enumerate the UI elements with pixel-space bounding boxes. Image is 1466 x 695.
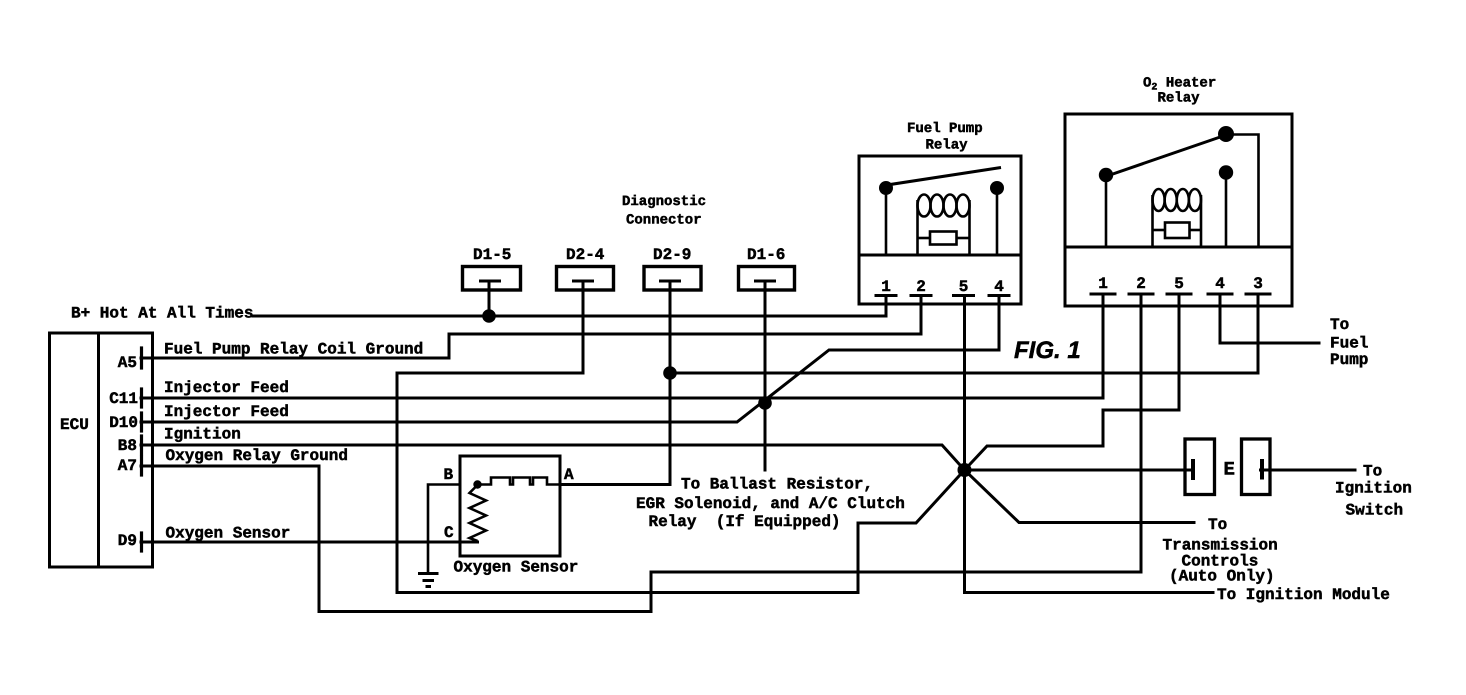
svg-text:To: To xyxy=(1330,316,1349,334)
K1 resistor xyxy=(918,232,970,245)
sensor internal node xyxy=(473,480,481,488)
svg-text:E: E xyxy=(1224,459,1235,481)
pin A7 tick xyxy=(140,457,143,475)
oxygen sensor box xyxy=(460,456,560,556)
ECU box xyxy=(50,333,153,567)
wire E connector to ignition switch xyxy=(1261,469,1356,472)
K2 middle contact xyxy=(1219,165,1233,179)
connector E left half xyxy=(1185,439,1215,495)
wire O2 relay pin 4 to fuel pump xyxy=(1220,294,1319,343)
K2 left contact xyxy=(1099,168,1113,182)
pin D9 tick xyxy=(140,533,143,551)
svg-text:EGR Solenoid, and A/C Clutch: EGR Solenoid, and A/C Clutch xyxy=(636,495,905,513)
wire fuel pump relay pin 5 down to ignition module xyxy=(965,296,1214,593)
svg-text:Ignition: Ignition xyxy=(1335,480,1412,498)
K1 right contact xyxy=(990,181,1004,195)
junction dot D1-6 / diagonal xyxy=(758,396,772,410)
K1 coil xyxy=(918,195,970,256)
junction dot D2-9 net xyxy=(663,366,677,380)
svg-text:FIG. 1: FIG. 1 xyxy=(1014,337,1081,364)
wire C11 injector feed to O2 relay pin 1 xyxy=(141,294,1103,398)
wire D2-4 stem and path to node X xyxy=(397,281,965,593)
wire D1-6 stem to ballast resistor note xyxy=(764,281,767,470)
connector D2-9 xyxy=(644,267,701,291)
sensor heater square wave element xyxy=(478,478,561,485)
connector D1-6 xyxy=(739,267,795,291)
connector D2-4 xyxy=(557,267,614,291)
wire B8 ignition to node X xyxy=(141,445,965,470)
connector E right half xyxy=(1242,439,1271,495)
svg-text:ECU: ECU xyxy=(60,416,89,434)
svg-text:D10: D10 xyxy=(109,414,138,432)
svg-text:3: 3 xyxy=(1253,275,1263,293)
K2 resistor xyxy=(1153,223,1202,239)
K1 switch arm xyxy=(887,168,1001,186)
pin C11 tick xyxy=(140,389,143,407)
svg-text:A5: A5 xyxy=(118,354,137,372)
svg-text:To Ignition Module: To Ignition Module xyxy=(1217,586,1390,604)
K2 switch arm xyxy=(1107,135,1226,176)
relay K1 Fuel Pump Relay xyxy=(859,156,1021,304)
K1 left contact xyxy=(879,181,893,195)
svg-text:D9: D9 xyxy=(118,532,137,550)
svg-text:Injector Feed: Injector Feed xyxy=(164,379,289,397)
svg-text:Injector Feed: Injector Feed xyxy=(164,403,289,421)
svg-text:2: 2 xyxy=(1136,275,1146,293)
svg-text:C11: C11 xyxy=(109,390,138,408)
svg-text:Oxygen Relay Ground: Oxygen Relay Ground xyxy=(166,447,348,465)
svg-text:A7: A7 xyxy=(118,457,137,475)
svg-text:B8: B8 xyxy=(118,437,137,455)
ECU internal divider xyxy=(97,333,100,567)
svg-text:1: 1 xyxy=(881,278,891,296)
svg-text:5: 5 xyxy=(1174,275,1184,293)
svg-text:4: 4 xyxy=(994,278,1004,296)
wire D9 oxygen sensor to sensor pin C xyxy=(141,541,478,544)
wire D1-5 stem xyxy=(488,281,491,316)
svg-text:Switch: Switch xyxy=(1346,502,1404,520)
wire D10 injector feed diagonal to fuel pump relay pin 4 xyxy=(141,296,999,423)
svg-text:Oxygen Sensor: Oxygen Sensor xyxy=(454,559,579,577)
wire A7 oxygen relay ground to O2 relay pin 2 xyxy=(141,294,1141,612)
svg-text:Oxygen Sensor: Oxygen Sensor xyxy=(166,525,291,543)
svg-text:(Auto Only): (Auto Only) xyxy=(1169,568,1275,586)
svg-text:Relay (If Equipped): Relay (If Equipped) xyxy=(649,513,841,531)
svg-text:Fuel: Fuel xyxy=(1330,335,1368,353)
svg-text:Diagnostic: Diagnostic xyxy=(622,194,706,210)
wire sensor pin B to ground xyxy=(428,485,460,574)
svg-text:D2-9: D2-9 xyxy=(653,246,691,264)
wire node X to O2 relay pin 5 xyxy=(965,294,1180,470)
wire node X to transmission controls xyxy=(965,470,1195,523)
svg-text:5: 5 xyxy=(959,278,969,296)
pin D10 tick xyxy=(140,413,143,431)
junction dot B+ / D1-5 xyxy=(482,309,496,323)
svg-text:Relay: Relay xyxy=(1158,91,1201,107)
svg-text:4: 4 xyxy=(1215,275,1225,293)
svg-text:Connector: Connector xyxy=(626,213,702,229)
svg-text:To: To xyxy=(1208,516,1227,534)
svg-text:D2-4: D2-4 xyxy=(566,246,605,264)
wire D2-9 stem down to oxygen sensor pin A xyxy=(560,281,670,485)
svg-text:1: 1 xyxy=(1098,275,1108,293)
svg-text:B+ Hot At All Times: B+ Hot At All Times xyxy=(71,305,253,323)
wire A5 fuel pump relay coil ground to relay pin 2 xyxy=(141,296,921,359)
svg-text:Relay: Relay xyxy=(926,138,969,154)
svg-text:Fuel Pump Relay Coil Ground: Fuel Pump Relay Coil Ground xyxy=(164,341,423,359)
wire net D2-9 to O2 relay pin 3 xyxy=(670,294,1258,373)
ground xyxy=(418,574,439,587)
svg-text:Ignition: Ignition xyxy=(164,426,241,444)
svg-text:Fuel Pump: Fuel Pump xyxy=(907,121,983,137)
K2 top contact xyxy=(1218,126,1234,142)
pin A5 tick xyxy=(140,348,143,368)
svg-text:Pump: Pump xyxy=(1330,351,1368,369)
svg-text:2: 2 xyxy=(916,278,926,296)
wire node X to E connector xyxy=(965,469,1193,472)
wire B+ Hot At All Times to fuel pump relay pin 1 xyxy=(253,296,886,317)
svg-text:D1-6: D1-6 xyxy=(747,246,785,264)
sensor resistor zigzag xyxy=(470,485,487,541)
svg-text:A: A xyxy=(564,466,574,484)
svg-text:B: B xyxy=(444,466,454,484)
relay K2 O2 Heater Relay xyxy=(1065,114,1292,306)
svg-text:C: C xyxy=(444,524,454,542)
svg-text:D1-5: D1-5 xyxy=(473,246,511,264)
K2 coil xyxy=(1153,189,1202,247)
connector D1-5 xyxy=(463,267,521,291)
svg-text:To: To xyxy=(1363,463,1382,481)
pin B8 tick xyxy=(140,436,143,454)
junction node X xyxy=(958,463,972,477)
svg-text:To Ballast Resistor,: To Ballast Resistor, xyxy=(681,476,873,494)
